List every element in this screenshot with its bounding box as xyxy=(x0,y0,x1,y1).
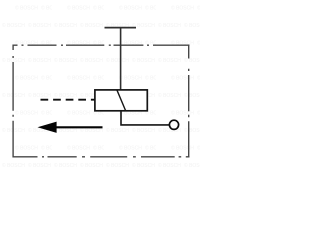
wire supply vertical xyxy=(120,28,122,90)
enclosure frame left (dash-dot) xyxy=(12,45,14,158)
valve body V1 xyxy=(95,90,147,111)
terminal circle xyxy=(169,120,178,129)
arrow shaft xyxy=(56,126,103,128)
pilot dashed line xyxy=(41,99,95,101)
valve diagonal flow path xyxy=(117,90,126,110)
enclosure frame bottom (dash-dot) xyxy=(13,156,190,158)
watermark background xyxy=(0,0,200,180)
tank symbol T bar xyxy=(105,27,137,29)
wire to terminal xyxy=(121,111,169,125)
enclosure frame right (dash-dot) xyxy=(188,45,190,158)
enclosure frame top (dash-dot) xyxy=(13,44,190,46)
arrow head xyxy=(38,122,57,133)
